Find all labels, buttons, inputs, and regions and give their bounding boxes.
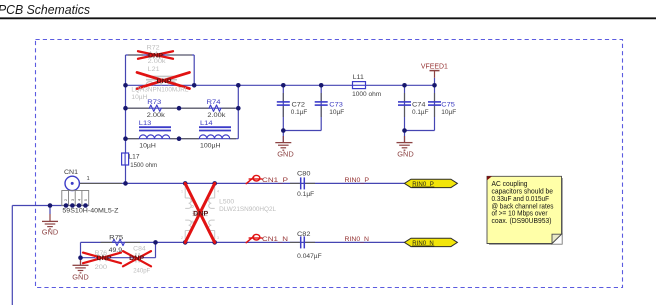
svg-text:2.00k: 2.00k xyxy=(147,112,166,119)
svg-text:RIN0_P: RIN0_P xyxy=(345,177,370,184)
svg-text:0.1µF: 0.1µF xyxy=(297,191,314,198)
svg-text:CN1_P: CN1_P xyxy=(262,177,289,184)
svg-text:1500 ohm: 1500 ohm xyxy=(130,162,157,169)
svg-text:C82: C82 xyxy=(297,231,311,238)
svg-text:1: 1 xyxy=(181,190,183,194)
svg-text:VFEED1: VFEED1 xyxy=(421,63,448,70)
svg-text:1: 1 xyxy=(87,176,90,182)
svg-text:CN1: CN1 xyxy=(64,169,78,176)
svg-text:L14: L14 xyxy=(200,120,213,127)
svg-text:GND: GND xyxy=(397,152,414,159)
svg-text:C84: C84 xyxy=(133,245,146,252)
svg-text:10µF: 10µF xyxy=(441,109,456,116)
svg-text:10µF: 10µF xyxy=(329,109,344,116)
svg-text:R75: R75 xyxy=(109,235,124,242)
svg-text:DLW21SN900HQ2L: DLW21SN900HQ2L xyxy=(219,206,276,213)
svg-text:R74: R74 xyxy=(207,99,222,106)
svg-text:59S10H-40ML5-Z: 59S10H-40ML5-Z xyxy=(62,208,118,215)
svg-text:3: 3 xyxy=(217,236,219,240)
svg-text:GND: GND xyxy=(72,275,89,282)
svg-text:10µH: 10µH xyxy=(131,94,147,101)
svg-text:0.1µF: 0.1µF xyxy=(412,109,429,116)
svg-text:R72: R72 xyxy=(147,45,160,52)
svg-text:C72: C72 xyxy=(292,101,306,108)
svg-text:L500: L500 xyxy=(219,198,234,205)
svg-text:CN1_N: CN1_N xyxy=(262,236,288,243)
svg-text:L13: L13 xyxy=(139,120,152,127)
svg-text:0.1µF: 0.1µF xyxy=(291,109,308,116)
svg-text:C75: C75 xyxy=(441,101,455,108)
svg-text:0.047µF: 0.047µF xyxy=(297,253,322,260)
svg-text:LQH3NPN100MJRL: LQH3NPN100MJRL xyxy=(131,87,188,94)
svg-text:@ back channel rates: @ back channel rates xyxy=(492,203,554,210)
svg-text:R76: R76 xyxy=(95,250,108,257)
svg-text:C80: C80 xyxy=(297,170,311,177)
svg-text:L17: L17 xyxy=(129,153,140,160)
svg-text:PCB Schematics: PCB Schematics xyxy=(0,2,90,17)
svg-text:49.9: 49.9 xyxy=(109,247,123,254)
svg-text:AC coupling: AC coupling xyxy=(492,181,528,188)
svg-text:capacitors should be: capacitors should be xyxy=(492,189,554,196)
svg-text:RIN0_N: RIN0_N xyxy=(345,236,370,243)
svg-text:C74: C74 xyxy=(412,101,426,108)
svg-text:C73: C73 xyxy=(329,101,343,108)
svg-text:GND: GND xyxy=(42,229,59,236)
svg-text:2.00k: 2.00k xyxy=(148,58,167,65)
svg-text:2: 2 xyxy=(181,236,183,240)
svg-text:DNP: DNP xyxy=(157,78,173,85)
svg-text:R73: R73 xyxy=(147,99,162,106)
svg-text:10µH: 10µH xyxy=(139,143,156,150)
svg-text:4: 4 xyxy=(217,190,219,194)
svg-text:200: 200 xyxy=(95,264,108,271)
svg-text:GND: GND xyxy=(277,152,294,159)
svg-text:100µH: 100µH xyxy=(200,143,221,150)
svg-text:0.33uF and 0.015uF: 0.33uF and 0.015uF xyxy=(492,196,550,203)
svg-text:L11: L11 xyxy=(353,74,364,81)
svg-text:L21: L21 xyxy=(148,66,160,73)
svg-text:1000 ohm: 1000 ohm xyxy=(352,91,381,98)
svg-text:coax. (DS90UB953): coax. (DS90UB953) xyxy=(492,218,552,225)
svg-text:DNP: DNP xyxy=(129,255,145,262)
svg-text:DNP: DNP xyxy=(193,211,209,218)
svg-text:of >= 10 Mbps over: of >= 10 Mbps over xyxy=(492,211,549,218)
svg-text:2.00k: 2.00k xyxy=(207,112,226,119)
svg-text:240pF: 240pF xyxy=(133,268,150,275)
